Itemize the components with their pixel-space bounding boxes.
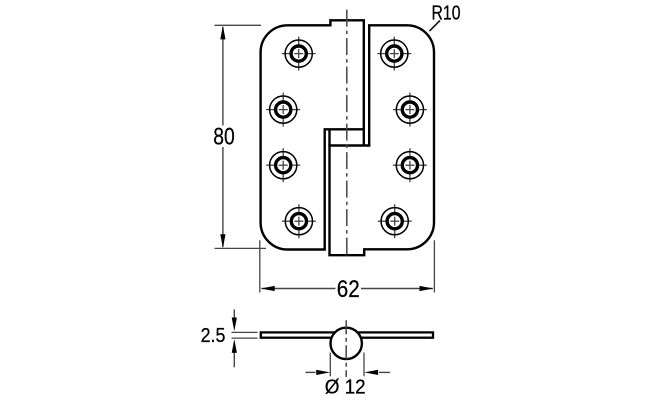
svg-text:80: 80 <box>213 123 235 150</box>
svg-text:R10: R10 <box>432 3 461 25</box>
svg-text:62: 62 <box>337 276 360 303</box>
svg-text:Ø 12: Ø 12 <box>325 376 366 399</box>
svg-text:2.5: 2.5 <box>201 324 226 347</box>
